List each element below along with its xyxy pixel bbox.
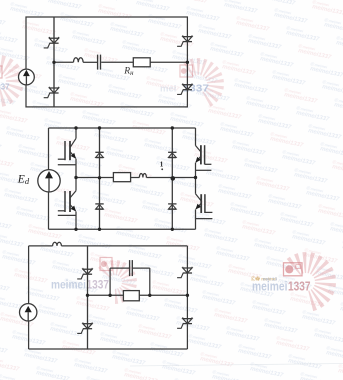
svg-text:meimei1337: meimei1337	[338, 368, 343, 380]
svg-text:meimei1337: meimei1337	[112, 354, 147, 367]
svg-text:meimei1337: meimei1337	[270, 136, 305, 149]
svg-text:Ⓒ meimei: Ⓒ meimei	[0, 293, 6, 302]
svg-text:meimei1337: meimei1337	[0, 342, 8, 355]
svg-text:meimei1337: meimei1337	[256, 180, 291, 193]
svg-text:meimei1337: meimei1337	[0, 218, 12, 231]
svg-text:meimei1337: meimei1337	[50, 326, 85, 339]
svg-text:meimei1337: meimei1337	[36, 370, 71, 380]
svg-text:meimei1337: meimei1337	[216, 250, 251, 263]
svg-text:meimei1337: meimei1337	[208, 108, 243, 121]
svg-text:meimei1337: meimei1337	[58, 78, 93, 91]
svg-text:meimei1337: meimei1337	[6, 130, 41, 143]
svg-text:meimei1337: meimei1337	[238, 348, 273, 361]
svg-text:meimei1337: meimei1337	[262, 0, 297, 7]
svg-text:meimei1337: meimei1337	[0, 14, 6, 27]
svg-text:meimei1337: meimei1337	[282, 154, 317, 167]
svg-text:meimei1337: meimei1337	[250, 366, 285, 379]
svg-text:meimei1337: meimei1337	[268, 198, 303, 211]
svg-text:1337: 1337	[87, 280, 110, 292]
svg-text:meimei1337: meimei1337	[190, 276, 225, 289]
svg-text:meimei1337: meimei1337	[188, 338, 223, 351]
svg-text:meimei1337: meimei1337	[120, 106, 155, 119]
svg-text:meimei1337: meimei1337	[170, 116, 205, 129]
svg-text:meimei1337: meimei1337	[246, 100, 281, 113]
svg-text:meimei1337: meimei1337	[18, 148, 53, 161]
svg-text:meimei1337: meimei1337	[164, 302, 199, 315]
svg-text:meimei1337: meimei1337	[24, 352, 59, 365]
svg-text:meimei1337: meimei1337	[308, 128, 343, 141]
svg-text:Ed: Ed	[17, 174, 30, 187]
svg-text:meimei1337: meimei1337	[0, 280, 10, 293]
svg-text:meimei1337: meimei1337	[186, 10, 221, 23]
svg-text:meimei1337: meimei1337	[0, 360, 20, 373]
svg-text:meimei: meimei	[252, 280, 288, 294]
svg-text:meimei1337: meimei1337	[234, 82, 269, 95]
svg-text:meimei1337: meimei1337	[106, 150, 141, 163]
svg-text:meimei1337: meimei1337	[182, 134, 217, 147]
svg-text:Rн: Rн	[123, 67, 134, 77]
svg-text:meimei1337: meimei1337	[280, 216, 315, 229]
svg-text:meimei1337: meimei1337	[286, 30, 321, 43]
svg-text:meimei1337: meimei1337	[284, 92, 319, 105]
svg-text:meimei1337: meimei1337	[94, 132, 129, 145]
svg-text:meimei1337: meimei1337	[116, 230, 151, 243]
svg-text:meimei1337: meimei1337	[160, 36, 195, 49]
svg-text:meimei1337: meimei1337	[74, 362, 109, 375]
svg-text:meimei1337: meimei1337	[224, 2, 259, 15]
svg-text:meimei1337: meimei1337	[206, 170, 241, 183]
svg-text:meimei1337: meimei1337	[0, 32, 18, 45]
svg-text:meimei1337: meimei1337	[204, 232, 239, 245]
svg-text:meimei1337: meimei1337	[132, 124, 167, 137]
svg-text:meimei1337: meimei1337	[136, 0, 171, 13]
svg-text:meimei1337: meimei1337	[200, 356, 235, 369]
svg-text:meimei1337: meimei1337	[210, 46, 245, 59]
svg-text:meimei1337: meimei1337	[92, 194, 127, 207]
svg-text:meimei1337: meimei1337	[22, 24, 57, 37]
svg-text:meimei1337: meimei1337	[86, 0, 121, 3]
svg-text:meimei1337: meimei1337	[222, 64, 257, 77]
svg-text:Ⓒ meimei: Ⓒ meimei	[0, 27, 2, 36]
svg-text:meimei1337: meimei1337	[260, 56, 295, 69]
svg-text:1337: 1337	[0, 81, 10, 91]
svg-text:meimei1337: meimei1337	[88, 318, 123, 331]
svg-text:meimei1337: meimei1337	[236, 20, 271, 33]
svg-text:meimei1337: meimei1337	[0, 156, 14, 169]
svg-text:meimei1337: meimei1337	[150, 346, 185, 359]
svg-text:meimei1337: meimei1337	[110, 26, 145, 39]
svg-text:meimei1337: meimei1337	[26, 290, 61, 303]
svg-text:meimei1337: meimei1337	[56, 140, 91, 153]
svg-text:meimei1337: meimei1337	[14, 272, 49, 285]
svg-text:Ⓒ meimei: Ⓒ meimei	[0, 355, 4, 364]
svg-text:meimei1337: meimei1337	[32, 104, 67, 117]
svg-text:meimei1337: meimei1337	[218, 188, 253, 201]
svg-text:meimei1337: meimei1337	[230, 206, 265, 219]
svg-text:meimei1337: meimei1337	[72, 34, 107, 47]
svg-text:Ⓒ meimei: Ⓒ meimei	[86, 375, 105, 380]
svg-text:meimei1337: meimei1337	[276, 340, 311, 353]
svg-text:meimei1337: meimei1337	[254, 242, 289, 255]
svg-text:meimei1337: meimei1337	[174, 0, 209, 5]
svg-text:meimei: meimei	[51, 280, 86, 292]
svg-text:meimei1337: meimei1337	[100, 336, 135, 349]
svg-text:meimei1337: meimei1337	[78, 238, 113, 251]
svg-text:mei: mei	[160, 83, 176, 94]
svg-text:meimei1337: meimei1337	[334, 102, 343, 115]
svg-text:meimei1337: meimei1337	[62, 344, 97, 357]
svg-text:meimei1337: meimei1337	[220, 126, 255, 139]
svg-text:meimei1337: meimei1337	[0, 138, 2, 151]
svg-text:meimei1337: meimei1337	[76, 300, 111, 313]
svg-text:meimei1337: meimei1337	[226, 330, 261, 343]
svg-text:meimei1337: meimei1337	[244, 162, 279, 175]
svg-text:meimei1337: meimei1337	[248, 38, 283, 51]
svg-text:meimei1337: meimei1337	[40, 246, 75, 259]
svg-text:meimei1337: meimei1337	[198, 28, 233, 41]
svg-text:meimei1337: meimei1337	[242, 224, 277, 237]
svg-text:meimei1337: meimei1337	[108, 88, 143, 101]
svg-text:meimei1337: meimei1337	[340, 306, 343, 319]
svg-text:1: 1	[160, 161, 164, 169]
svg-text:meimei1337: meimei1337	[296, 110, 331, 123]
svg-text:meimei1337: meimei1337	[126, 310, 161, 323]
svg-text:meimei1337: meimei1337	[4, 192, 39, 205]
svg-text:meimei1337: meimei1337	[162, 364, 197, 377]
svg-text:meimei1337: meimei1337	[60, 16, 95, 29]
svg-text:meimei1337: meimei1337	[128, 248, 163, 261]
svg-text:meimei1337: meimei1337	[66, 220, 101, 233]
svg-text:meimei1337: meimei1337	[52, 264, 87, 277]
svg-text:meimei1337: meimei1337	[306, 190, 341, 203]
svg-text:meimei1337: meimei1337	[332, 164, 343, 177]
svg-text:meimei1337: meimei1337	[232, 144, 267, 157]
svg-text:meimei1337: meimei1337	[104, 212, 139, 225]
svg-text:meimei1337: meimei1337	[130, 186, 165, 199]
svg-text:meimei1337: meimei1337	[336, 40, 343, 53]
svg-text:meimei1337: meimei1337	[298, 48, 333, 61]
svg-text:meimei1337: meimei1337	[292, 234, 327, 247]
svg-text:meimei1337: meimei1337	[28, 228, 63, 241]
svg-text:meimei1337: meimei1337	[34, 42, 69, 55]
svg-text:meimei1337: meimei1337	[48, 0, 83, 11]
svg-text:meimei1337: meimei1337	[294, 172, 329, 185]
svg-text:meimei1337: meimei1337	[214, 312, 249, 325]
svg-text:meimei1337: meimei1337	[178, 258, 213, 271]
svg-text:mei 13: mei 13	[263, 277, 278, 282]
svg-text:meimei1337: meimei1337	[82, 114, 117, 127]
svg-text:meimei1337: meimei1337	[192, 214, 227, 227]
svg-text:meimei1337: meimei1337	[288, 358, 323, 371]
svg-text:meimei1337: meimei1337	[258, 118, 293, 131]
svg-text:meimei1337: meimei1337	[38, 308, 73, 321]
svg-text:meimei1337: meimei1337	[302, 314, 337, 327]
svg-text:meimei1337: meimei1337	[98, 8, 133, 21]
svg-text:meimei1337: meimei1337	[148, 18, 183, 31]
svg-text:meimei1337: meimei1337	[202, 294, 237, 307]
svg-text:meimei1337: meimei1337	[122, 44, 157, 57]
svg-text:meimei1337: meimei1337	[166, 240, 201, 253]
svg-text:meimei1337: meimei1337	[252, 304, 287, 317]
svg-text:meimei1337: meimei1337	[274, 12, 309, 25]
svg-text:meimei1337: meimei1337	[138, 328, 173, 341]
svg-text:meimei1337: meimei1337	[264, 322, 299, 335]
svg-text:1337: 1337	[288, 280, 311, 294]
svg-text:meimei1337: meimei1337	[176, 320, 211, 333]
svg-text:meimei1337: meimei1337	[2, 254, 37, 267]
svg-text:meimei1337: meimei1337	[0, 0, 32, 1]
svg-text:meimei1337: meimei1337	[272, 74, 307, 87]
svg-text:meimei1337: meimei1337	[16, 210, 51, 223]
